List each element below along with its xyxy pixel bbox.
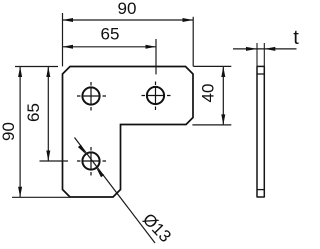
arrow 65 left bottom — [46, 151, 50, 162]
svg-text:40: 40 — [199, 84, 218, 103]
arrow 90 top left — [63, 18, 74, 22]
side view left edge — [256, 66, 258, 197]
side view bottom chamfer line — [257, 189, 265, 191]
leader arrow upper (points to hole edge, down-right) — [78, 145, 86, 154]
dimension line thickness t — [233, 48, 297, 50]
dimension line 40 right — [222, 67, 224, 125]
extension line for 65 top — [155, 39, 157, 74]
extension line right 40 bottom — [192, 124, 231, 126]
center line H3 vertical — [90, 147, 92, 176]
side view top edge — [257, 65, 265, 67]
center line H2 horizontal — [142, 95, 171, 97]
arrow 90 left bottom — [18, 187, 22, 198]
arrow 65 top right — [146, 45, 157, 49]
hole H3 bottom-left — [82, 152, 99, 169]
extension line left bottom horizontal — [12, 196, 70, 198]
center line H1 vertical — [90, 82, 92, 111]
arrow 40 bottom — [221, 114, 225, 125]
svg-text:t: t — [293, 27, 299, 49]
center line H2 vertical — [155, 82, 157, 111]
arrow t left (points right, tip at left face) — [246, 47, 257, 51]
dimension line 90 left — [19, 67, 21, 198]
side view right edge — [263, 66, 265, 197]
arrow 90 top right — [183, 18, 194, 22]
svg-text:90: 90 — [118, 0, 137, 18]
hole H2 top-right — [147, 87, 164, 104]
dimension line 65 top — [63, 46, 157, 48]
svg-text:90: 90 — [0, 122, 18, 141]
leader arrow lower (points to hole edge, up-left) — [96, 168, 104, 177]
center line H1 horizontal — [77, 95, 106, 97]
hole H1 top-left — [82, 87, 99, 104]
arrow t right (points left, tip at right face) — [264, 47, 275, 51]
extension line right 40 top — [193, 65, 231, 67]
svg-text:65: 65 — [24, 103, 43, 122]
svg-text:65: 65 — [101, 25, 120, 44]
extension line left top horizontal — [15, 66, 58, 68]
arrow 90 left top — [18, 67, 22, 78]
side view bottom edge — [257, 196, 265, 198]
dimension line 65 left — [47, 67, 49, 162]
plate outline — [63, 67, 194, 198]
leader line D13 — [75, 138, 156, 244]
extension line left 65 horizontal — [40, 160, 69, 162]
svg-text:Ø13: Ø13 — [139, 210, 175, 246]
arrow 65 left top — [46, 67, 50, 78]
dimension line 90 top — [63, 19, 194, 21]
center line H3 horizontal — [77, 160, 106, 162]
arrow 40 top — [221, 67, 225, 78]
side view thickness extension line left — [256, 43, 258, 66]
extension line top-right vertical — [192, 17, 194, 67]
arrow 65 top left — [63, 45, 74, 49]
extension line top-left vertical — [62, 13, 64, 66]
side view thickness extension line right — [263, 43, 265, 66]
side view top chamfer line — [257, 73, 265, 75]
